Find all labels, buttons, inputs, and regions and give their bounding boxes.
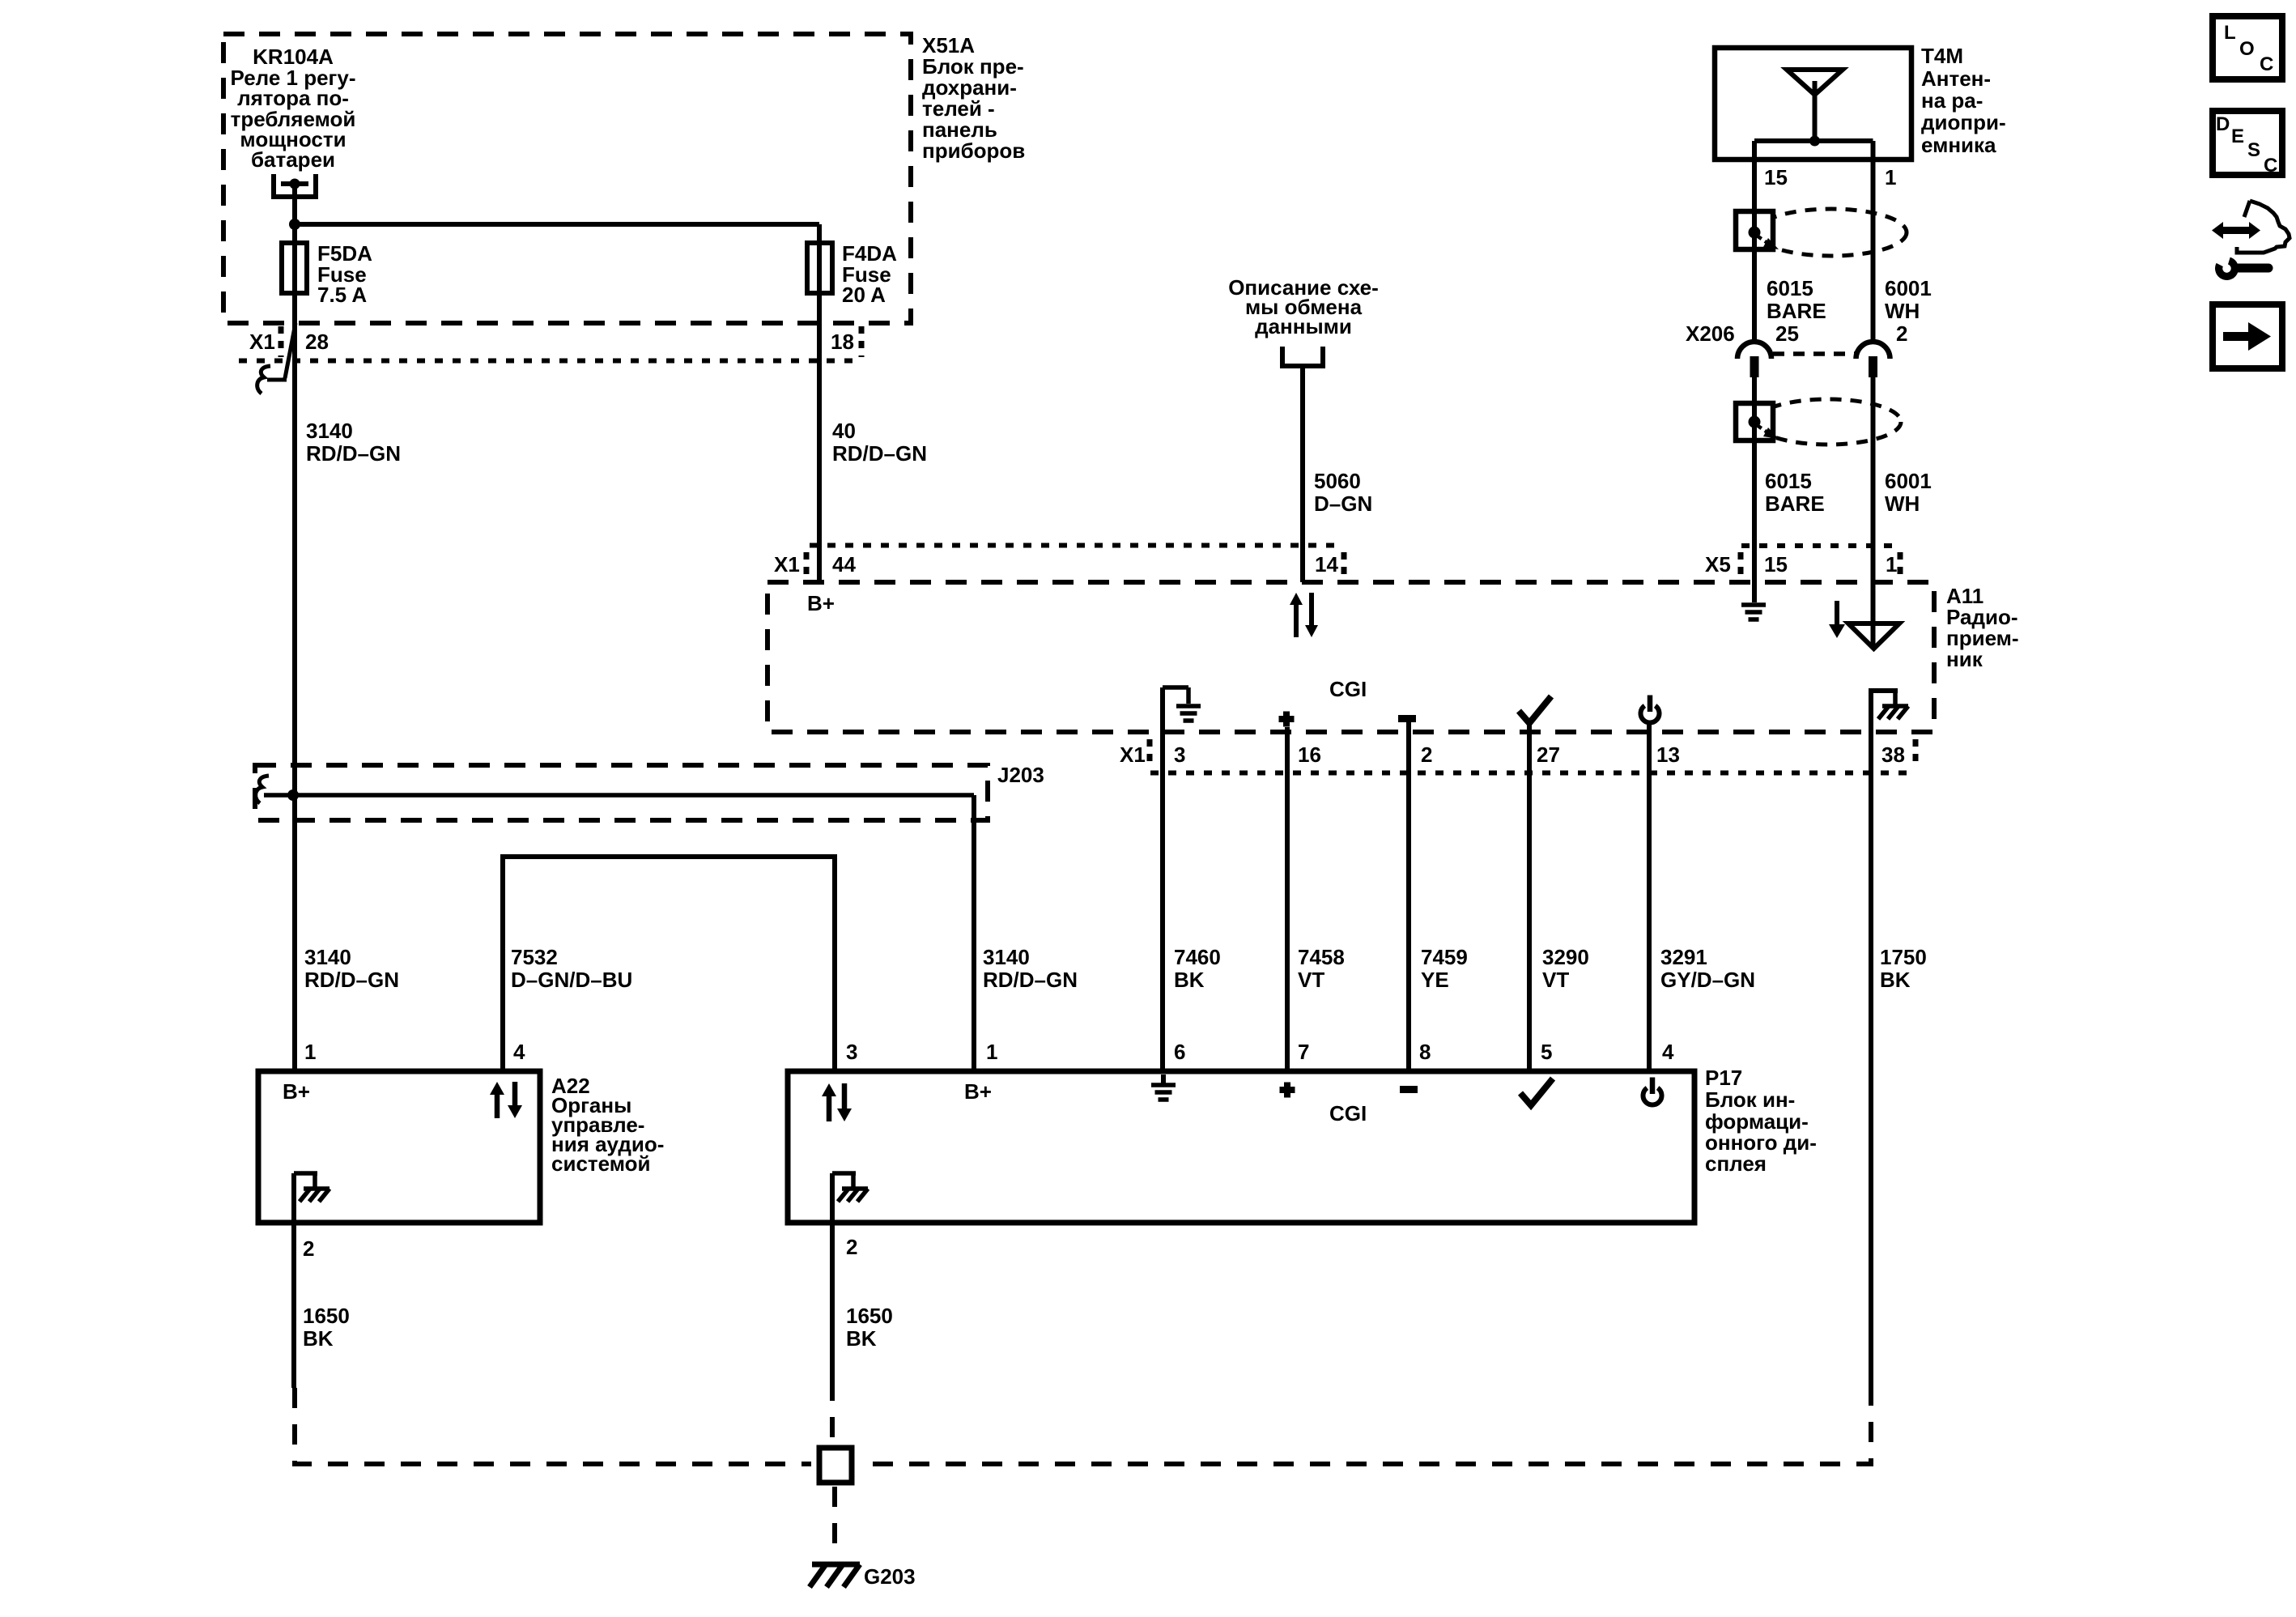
svg-text:7.5 A: 7.5 A: [317, 283, 367, 307]
svg-text:7532: 7532: [511, 945, 558, 969]
svg-text:2: 2: [1896, 321, 1907, 346]
svg-text:15: 15: [1764, 552, 1788, 577]
svg-text:C: C: [2264, 155, 2277, 177]
svg-text:1: 1: [1885, 165, 1896, 189]
svg-text:Т4М: Т4М: [1921, 44, 1963, 68]
svg-text:1650: 1650: [846, 1304, 893, 1328]
svg-text:на ра-: на ра-: [1921, 88, 1983, 113]
svg-text:2: 2: [303, 1236, 314, 1261]
svg-text:G203: G203: [864, 1564, 916, 1589]
svg-text:18: 18: [831, 330, 854, 354]
svg-text:6015: 6015: [1765, 469, 1812, 493]
svg-text:VT: VT: [1542, 968, 1569, 992]
svg-text:X206: X206: [1686, 321, 1735, 346]
svg-text:4: 4: [1662, 1040, 1674, 1064]
svg-text:C: C: [2260, 53, 2273, 75]
svg-text:YE: YE: [1421, 968, 1449, 992]
svg-text:6: 6: [1174, 1040, 1185, 1064]
svg-text:1: 1: [1886, 552, 1897, 577]
svg-text:28: 28: [305, 330, 329, 354]
svg-text:WH: WH: [1885, 491, 1920, 516]
svg-text:3: 3: [846, 1040, 857, 1064]
svg-text:7: 7: [1298, 1040, 1309, 1064]
svg-text:7459: 7459: [1421, 945, 1468, 969]
svg-text:BK: BK: [303, 1326, 334, 1351]
svg-text:4: 4: [513, 1040, 525, 1064]
svg-text:RD/D–GN: RD/D–GN: [304, 968, 399, 992]
svg-text:GY/D–GN: GY/D–GN: [1660, 968, 1755, 992]
svg-text:40: 40: [832, 419, 856, 443]
svg-text:1650: 1650: [303, 1304, 350, 1328]
svg-text:X1: X1: [1120, 743, 1146, 767]
svg-text:D–GN/D–BU: D–GN/D–BU: [511, 968, 632, 992]
svg-text:44: 44: [832, 552, 856, 577]
svg-text:X1: X1: [774, 552, 800, 577]
svg-text:6015: 6015: [1767, 276, 1813, 300]
svg-text:BK: BK: [846, 1326, 877, 1351]
svg-text:1750: 1750: [1880, 945, 1927, 969]
svg-text:D–GN: D–GN: [1314, 491, 1372, 516]
svg-text:RD/D–GN: RD/D–GN: [983, 968, 1078, 992]
svg-text:B+: B+: [807, 591, 835, 615]
svg-text:O: O: [2239, 38, 2255, 60]
svg-text:5060: 5060: [1314, 469, 1361, 493]
svg-text:X5: X5: [1705, 552, 1731, 577]
svg-text:BARE: BARE: [1767, 299, 1826, 323]
svg-text:ник: ник: [1946, 647, 1983, 671]
svg-text:WH: WH: [1885, 299, 1920, 323]
svg-text:25: 25: [1775, 321, 1799, 346]
svg-text:батареи: батареи: [251, 147, 335, 172]
svg-text:6001: 6001: [1885, 469, 1932, 493]
svg-text:CGI: CGI: [1329, 677, 1367, 701]
svg-text:3140: 3140: [304, 945, 351, 969]
svg-text:J203: J203: [997, 763, 1044, 787]
svg-text:3290: 3290: [1542, 945, 1589, 969]
svg-text:5: 5: [1541, 1040, 1552, 1064]
svg-text:VT: VT: [1298, 968, 1324, 992]
svg-text:RD/D–GN: RD/D–GN: [306, 441, 401, 466]
svg-text:BK: BK: [1880, 968, 1911, 992]
svg-text:3: 3: [1174, 743, 1185, 767]
svg-text:1: 1: [986, 1040, 997, 1064]
svg-text:2: 2: [1421, 743, 1432, 767]
svg-text:7458: 7458: [1298, 945, 1345, 969]
svg-text:данными: данными: [1255, 314, 1352, 338]
svg-text:B+: B+: [964, 1079, 992, 1104]
svg-text:приборов: приборов: [922, 138, 1025, 163]
svg-text:16: 16: [1298, 743, 1321, 767]
svg-text:B+: B+: [283, 1079, 310, 1104]
svg-text:емника: емника: [1921, 133, 1996, 157]
svg-text:14: 14: [1315, 552, 1338, 577]
svg-text:системой: системой: [551, 1151, 651, 1176]
svg-text:3291: 3291: [1660, 945, 1707, 969]
svg-text:8: 8: [1419, 1040, 1431, 1064]
svg-text:CGI: CGI: [1329, 1101, 1367, 1126]
svg-text:15: 15: [1764, 165, 1788, 189]
svg-text:38: 38: [1881, 743, 1905, 767]
svg-text:S: S: [2247, 139, 2260, 161]
svg-text:3140: 3140: [306, 419, 353, 443]
svg-text:E: E: [2231, 126, 2244, 147]
svg-text:сплея: сплея: [1705, 1151, 1767, 1176]
svg-text:Антен-: Антен-: [1921, 66, 1991, 91]
svg-text:13: 13: [1656, 743, 1680, 767]
svg-text:1: 1: [304, 1040, 316, 1064]
svg-text:BARE: BARE: [1765, 491, 1825, 516]
svg-text:7460: 7460: [1174, 945, 1221, 969]
svg-text:D: D: [2216, 113, 2230, 135]
svg-text:20 A: 20 A: [842, 283, 886, 307]
svg-text:X1: X1: [249, 330, 275, 354]
svg-text:RD/D–GN: RD/D–GN: [832, 441, 927, 466]
svg-text:P17: P17: [1705, 1066, 1742, 1090]
svg-text:BK: BK: [1174, 968, 1205, 992]
svg-text:27: 27: [1537, 743, 1560, 767]
svg-text:6001: 6001: [1885, 276, 1932, 300]
svg-text:2: 2: [846, 1235, 857, 1259]
svg-text:диопри-: диопри-: [1921, 110, 2006, 134]
svg-text:3140: 3140: [983, 945, 1030, 969]
svg-text:Блок ин-: Блок ин-: [1705, 1087, 1795, 1112]
svg-text:L: L: [2224, 22, 2236, 44]
